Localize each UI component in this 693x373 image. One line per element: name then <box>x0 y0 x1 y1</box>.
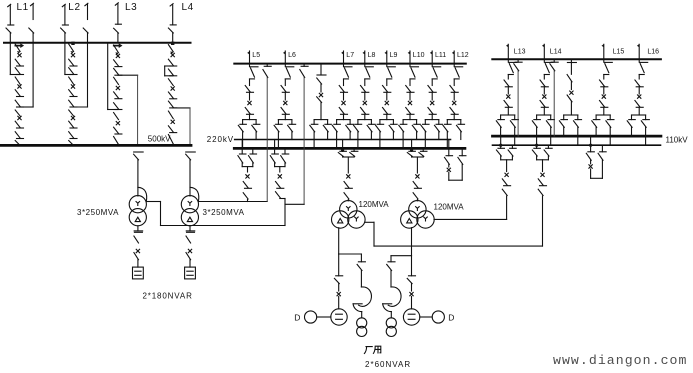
bus-side disconnector pair <box>274 140 276 155</box>
bus selector fork <box>537 114 551 116</box>
synchronous condenser SC1 <box>331 309 347 325</box>
line L9 entry <box>385 51 387 54</box>
delta symbol <box>187 217 192 221</box>
disconnector DS <box>187 231 195 233</box>
breaker QF <box>342 101 345 104</box>
wire L1 right branch below bus <box>32 43 34 107</box>
disconnector DS <box>504 80 509 86</box>
disconnector DS <box>134 231 142 233</box>
series breaker chain to transformer <box>542 160 544 172</box>
line L10 entry <box>408 51 410 54</box>
bus 110kV bus I (thick) <box>493 135 661 138</box>
svg-text:L9: L9 <box>390 52 398 59</box>
transformer MV winding circle (wye) <box>348 211 365 228</box>
svg-text:220kV: 220kV <box>207 135 234 144</box>
bus 500kV upper (bus I) <box>4 42 191 44</box>
breaker string L4 (disconnectors and breakers) <box>168 45 173 52</box>
bus-side disconnector pair (below 110kV buses) <box>536 136 538 148</box>
disconnector DS <box>635 80 640 86</box>
svg-text:L14: L14 <box>550 48 562 55</box>
branch disconnector DS <box>360 254 362 262</box>
wire T1 MV output to 220kV chain <box>146 201 160 203</box>
node L3 bus tap arrow <box>113 43 123 48</box>
transformer bus selector pair (below 220kV buses) <box>342 140 344 152</box>
bus selector fork <box>358 119 372 121</box>
breaker QF <box>507 95 510 98</box>
disconnector DS <box>600 80 605 86</box>
svg-text:D: D <box>448 313 454 323</box>
branch winding hook <box>388 287 401 306</box>
svg-text:L12: L12 <box>457 52 469 59</box>
breaker QF <box>248 101 251 104</box>
main breaker QF <box>410 292 413 295</box>
wire link tap B to T1 chain <box>285 203 304 205</box>
station service transformer circles <box>386 318 396 328</box>
disconnector DS <box>540 80 545 86</box>
disconnector DS below bypass bus <box>364 64 366 67</box>
svg-text:120MVA: 120MVA <box>434 202 465 211</box>
disconnector DS <box>406 108 411 114</box>
branch tee <box>391 255 412 257</box>
bypass tap B disconnector and riser <box>303 64 305 67</box>
disconnector DS <box>361 86 366 92</box>
series breaker chain to transformer <box>506 160 508 172</box>
wire to transformer <box>189 160 191 196</box>
wire from transformer tertiary <box>411 228 413 256</box>
wire TT2 MV to 110kV chain I route <box>434 218 507 220</box>
line L6 entry <box>283 51 285 54</box>
wire to reactor <box>189 260 191 267</box>
node L4 bus junction <box>171 42 174 45</box>
node L1 bus tap arrow <box>14 43 24 48</box>
disconnector DS <box>281 86 286 92</box>
bus 220kV bus I (thin) <box>235 139 451 141</box>
disconnector DS below bypass bus <box>431 64 433 67</box>
svg-text:2*60NVAR: 2*60NVAR <box>365 360 411 369</box>
bus coupler 220kV <box>448 140 450 156</box>
wire L1 left branch below bus <box>9 43 11 75</box>
breaker QF <box>453 101 456 104</box>
neutral grounding stub <box>137 226 139 231</box>
svg-text:D: D <box>294 313 300 323</box>
transformer MV winding circle (wye) <box>417 211 434 228</box>
disconnector DS below 500kV bus <box>134 151 144 153</box>
autotransformer winding hook <box>138 187 147 201</box>
branch disconnector DS <box>390 256 392 262</box>
svg-text:L11: L11 <box>435 52 446 59</box>
disconnector DS below bypass bus <box>343 64 345 67</box>
wire to condenser <box>411 297 413 309</box>
wire to station transformer <box>361 312 363 318</box>
line L5 entry <box>247 51 249 54</box>
bypass breaker bay stub <box>570 59 572 62</box>
wire to condenser <box>338 297 340 309</box>
wire T2 MV output to 220kV chain <box>198 201 247 203</box>
main disconnector DS <box>338 254 340 276</box>
svg-text:2*180NVAR: 2*180NVAR <box>143 292 193 301</box>
breaker QF <box>431 101 434 104</box>
wire to transformer <box>137 160 139 196</box>
line L1 left branch with disconnector DS <box>8 4 11 6</box>
line L3 with disconnector DS <box>115 3 118 5</box>
disconnector DS <box>428 108 433 114</box>
disconnector DS <box>361 108 366 114</box>
transformer HV winding circle <box>181 196 198 213</box>
transformer HV winding circle <box>129 196 146 213</box>
line L1 right branch with disconnector DS <box>31 3 34 5</box>
bus selector fork <box>380 119 394 121</box>
breaker QF <box>136 249 139 252</box>
bypass tap A disconnector and riser <box>266 64 268 67</box>
svg-text:www.diangon.com: www.diangon.com <box>553 353 687 368</box>
line L2 right branch with disconnector DS <box>85 3 88 5</box>
line L4 with disconnector DS <box>170 4 173 6</box>
bus selector fork <box>632 114 646 116</box>
bus-side disconnector pair <box>241 140 243 155</box>
transformer LV winding circle <box>181 209 198 226</box>
bypass breaker bay stub <box>320 64 322 75</box>
svg-text:3*250MVA: 3*250MVA <box>77 208 119 217</box>
disconnector DS <box>600 101 605 107</box>
wire to reactor <box>137 260 139 267</box>
disconnector DS below bypass bus <box>638 59 640 62</box>
disconnector DS below bypass bus <box>284 64 286 67</box>
wire L3 left bracket from bus <box>107 43 109 110</box>
shunt reactor box <box>133 267 144 279</box>
wire L2 left branch below bus <box>64 43 66 75</box>
bus 110kV bypass <box>492 58 661 60</box>
wire TT1 MV to 110kV chain II route <box>365 221 374 223</box>
exciter machine circle <box>305 311 317 323</box>
svg-text:120MVA: 120MVA <box>359 200 390 209</box>
bus 220kV bus II (thick) <box>234 147 465 150</box>
branch half-disc (flag) <box>353 303 362 305</box>
autotransformer winding hook <box>190 187 199 201</box>
blade <box>186 253 191 260</box>
disconnector DS <box>339 108 344 114</box>
line L11 entry <box>430 51 432 54</box>
breaker QF <box>638 95 641 98</box>
svg-text:3*250MVA: 3*250MVA <box>203 208 245 217</box>
transformer HV winding circle <box>409 201 426 218</box>
bus selector fork <box>278 119 292 121</box>
series breaker chain <box>279 167 281 172</box>
synchronous condenser SC2 <box>403 309 419 325</box>
bypass tap disconnector and riser (L13 bay) <box>517 59 519 62</box>
svg-text:L6: L6 <box>288 52 296 59</box>
wire and breaker to transformer <box>347 157 349 173</box>
breaker string L2 (disconnectors and breakers) <box>69 44 74 52</box>
bus 500kV lower (bus II) <box>1 144 192 147</box>
disconnector DS below bypass bus <box>249 64 251 67</box>
svg-text:L10: L10 <box>413 52 425 59</box>
disconnector DS <box>450 108 455 114</box>
disconnector DS below bypass bus <box>507 59 509 62</box>
bus selector fork <box>337 119 351 121</box>
branch tee <box>339 253 362 255</box>
neutral grounding stub <box>189 226 191 231</box>
bus coupler 110kV <box>590 136 592 152</box>
series breaker chain <box>247 167 249 172</box>
wire L4 bypass loop <box>165 65 173 67</box>
disconnector DS <box>428 86 433 92</box>
disconnector DS <box>406 86 411 92</box>
transformer bus selector pair (below 220kV buses) <box>411 140 413 152</box>
disconnector DS <box>450 86 455 92</box>
bus selector fork <box>564 114 578 116</box>
breaker QF <box>363 101 366 104</box>
wire from transformer tertiary <box>338 228 340 254</box>
svg-text:L7: L7 <box>346 52 354 59</box>
bus 220kV bypass <box>234 63 465 65</box>
svg-text:L15: L15 <box>613 48 625 55</box>
disconnector DS below bypass bus <box>409 64 411 67</box>
wye symbol <box>188 202 192 206</box>
svg-text:500kV: 500kV <box>148 134 171 143</box>
wire SC1 to exciter <box>317 316 331 318</box>
bypass breaker QF <box>319 93 322 96</box>
disconnector DS <box>540 101 545 107</box>
svg-text:L4: L4 <box>182 2 194 13</box>
transformer HV winding circle <box>340 201 357 218</box>
line L16 entry <box>637 44 639 47</box>
line L15 entry <box>602 44 604 47</box>
bus selector fork <box>425 119 439 121</box>
disconnector DS <box>281 108 286 114</box>
wire to station transformer <box>390 312 392 318</box>
station service transformer circles <box>357 318 367 328</box>
bus-side disconnector pair (below 110kV buses) <box>500 136 502 148</box>
svg-text:L16: L16 <box>647 48 659 55</box>
blade <box>134 253 139 260</box>
breaker string L1 (disconnectors and breakers) <box>15 44 20 52</box>
disconnector DS <box>339 86 344 92</box>
svg-text:L3: L3 <box>125 2 137 13</box>
svg-text:L1: L1 <box>17 2 29 13</box>
branch half-disc (flag) <box>383 303 392 305</box>
svg-text:110kV: 110kV <box>666 135 689 144</box>
line L2 left branch with disconnector DS <box>62 4 65 6</box>
bus selector fork <box>403 119 417 121</box>
svg-text:L2: L2 <box>68 2 80 13</box>
main breaker QF <box>337 292 340 295</box>
breaker QF <box>385 101 388 104</box>
bus 110kV bus II (thin) <box>493 144 661 146</box>
transformer LV winding circle <box>129 209 146 226</box>
wire T1-chain jog <box>280 198 285 200</box>
node L2 bus junction <box>71 42 74 45</box>
wire L4 tap to transformer T2 node <box>173 107 190 109</box>
svg-text:L13: L13 <box>514 48 526 55</box>
disconnector DS <box>504 101 509 107</box>
transformer LV winding circle (delta) <box>332 211 349 228</box>
line L13 entry <box>506 44 508 47</box>
exciter machine circle <box>432 311 444 323</box>
bus selector fork <box>447 119 461 121</box>
svg-text:L8: L8 <box>368 52 376 59</box>
wire and breaker to transformer <box>416 157 418 173</box>
bus selector fork <box>501 114 515 116</box>
svg-text:L5: L5 <box>252 52 260 59</box>
disconnector DS below bypass bus <box>453 64 455 67</box>
bus selector fork <box>314 119 328 121</box>
breaker QF <box>284 101 287 104</box>
wire SC2 to exciter <box>420 316 432 318</box>
bypass tap disconnector and riser (L14 bay) <box>553 59 555 62</box>
bus selector fork <box>243 119 257 121</box>
label station-service (CJK) <box>364 347 372 354</box>
bypass breaker QF <box>570 91 573 94</box>
branch winding hook <box>359 287 372 306</box>
wye symbol <box>136 202 140 206</box>
disconnector DS <box>383 86 388 92</box>
delta symbol <box>135 217 140 221</box>
breaker QF <box>602 95 605 98</box>
disconnector DS <box>383 108 388 114</box>
wire L2 right branch below bus <box>87 43 89 107</box>
bus selector fork <box>596 114 610 116</box>
disconnector DS below 500kV bus <box>186 151 196 153</box>
breaker QF <box>543 95 546 98</box>
transformer LV winding circle (delta) <box>401 211 418 228</box>
disconnector DS below bypass bus <box>603 59 605 62</box>
line L8 entry <box>363 51 365 54</box>
breaker QF <box>408 101 411 104</box>
wire L3 tap to transformer T1 node <box>118 74 138 76</box>
disconnector DS below bypass bus <box>543 59 545 62</box>
line L7 entry <box>341 51 343 54</box>
disconnector DS below bypass bus <box>386 64 388 67</box>
breaker string L3 (disconnectors and breakers) <box>114 45 119 53</box>
disconnector DS <box>635 101 640 107</box>
main disconnector DS <box>411 256 413 276</box>
breaker QF <box>188 249 191 252</box>
disconnector DS <box>245 86 250 92</box>
shunt reactor box <box>185 267 196 279</box>
line L14 entry <box>542 44 544 47</box>
line L12 entry <box>452 51 454 54</box>
disconnector DS <box>245 108 250 114</box>
